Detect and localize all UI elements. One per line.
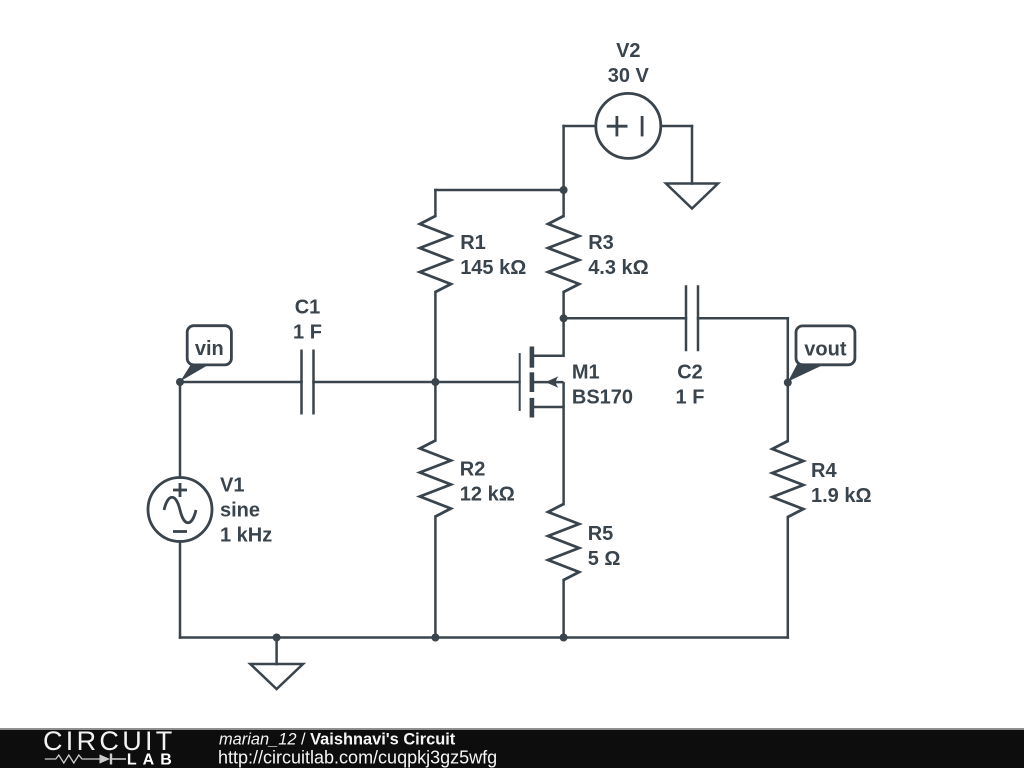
svg-text:12 kΩ: 12 kΩ [460,484,515,506]
svg-text:M1: M1 [572,361,600,383]
junction R5 bottom [560,634,568,642]
svg-text:4.3 kΩ: 4.3 kΩ [588,257,649,279]
svg-text:LAB: LAB [127,751,178,768]
wire R1 bottom lead to gate wire [434,292,437,382]
node vout junction [784,379,792,387]
resistor R4 [772,441,803,517]
wire bottom ground stem [275,638,278,665]
wire V2 right vertical to ground [691,126,694,184]
wire V2 left vertical down to top rail node [562,126,565,190]
wire C2 right plate to corner [698,317,788,320]
svg-text:C2: C2 [677,361,703,383]
junction drain / R3 / C2 [560,314,568,322]
footer bar [0,728,1024,768]
wire R4 bottom lead [787,517,790,638]
capacitor C1 [302,350,314,415]
wire R1 top lead [434,190,437,216]
svg-text:R3: R3 [588,232,614,254]
svg-text:C1: C1 [295,297,321,319]
node vout flag box [796,326,855,365]
node vout flag tail [788,364,824,382]
ground (V2) [666,184,718,209]
wire V2 left lead [564,125,596,128]
footer logo diode triangle [100,754,111,763]
svg-text:R1: R1 [460,232,486,254]
svg-text:145 kΩ: 145 kΩ [460,257,526,279]
voltage source V2 [596,93,661,158]
svg-text:R4: R4 [811,460,837,482]
svg-text:1 F: 1 F [293,322,322,344]
footer logo resistor squiggle [45,754,111,765]
junction R2 bottom [431,634,439,642]
svg-text:V1: V1 [220,475,244,497]
transistor M1 (NMOS) [520,347,564,418]
wire bottom rail [180,636,788,639]
wire drain node to C2 left plate [564,317,686,320]
resistor R2 [420,441,451,517]
wire drain vertical [562,318,565,356]
svg-text:1 F: 1 F [676,386,705,408]
wire vin node to C1 left plate [180,381,302,384]
wire C1 right plate to M1 gate [314,381,520,384]
resistor R3 [548,216,579,292]
wire source vertical to R5 [562,407,565,504]
wire top horizontal R1-R3 [435,189,563,192]
svg-text:R5: R5 [588,523,614,545]
resistor R1 [420,216,451,292]
wire R5 bottom lead [562,580,565,638]
resistor R5 [548,504,579,580]
svg-text:1 kHz: 1 kHz [220,525,272,547]
wire R2 top lead [434,382,437,441]
svg-text:30 V: 30 V [608,65,650,87]
wire R3 bottom lead to drain node [562,292,565,318]
svg-text:5 Ω: 5 Ω [588,548,621,570]
junction gate wire / R1 / R2 [431,378,439,386]
wire V1 bottom lead [179,542,182,638]
wire R3 top lead [562,190,565,216]
junction ground stem [273,634,281,642]
wire V1 top lead [179,382,182,478]
capacitor C2 [686,285,698,351]
svg-text:BS170: BS170 [572,386,633,408]
svg-text:http://circuitlab.com/cuqpkj3g: http://circuitlab.com/cuqpkj3gz5wfg [218,747,497,767]
node vin flag tail [180,364,209,382]
voltage source V1 (sine) [148,478,212,542]
svg-text:R2: R2 [460,459,486,481]
junction top rail / V2 [560,186,568,194]
svg-text:marian_12 / Vaishnavi's Circui: marian_12 / Vaishnavi's Circuit [219,731,456,749]
wire V2 right lead [661,125,692,128]
svg-text:sine: sine [220,500,260,522]
svg-text:V2: V2 [616,40,640,62]
svg-text:vout: vout [804,338,847,360]
svg-text:vin: vin [195,338,224,360]
ground (bottom rail) [250,664,303,689]
wire vout vertical down to R4 [787,318,790,441]
node vin junction [176,378,184,386]
node vin flag box [187,326,231,365]
footer logo diode wire to LAB [112,758,126,760]
svg-text:1.9 kΩ: 1.9 kΩ [811,485,872,507]
wire R2 bottom lead [434,517,437,638]
M1 bulk arrow [546,376,559,388]
